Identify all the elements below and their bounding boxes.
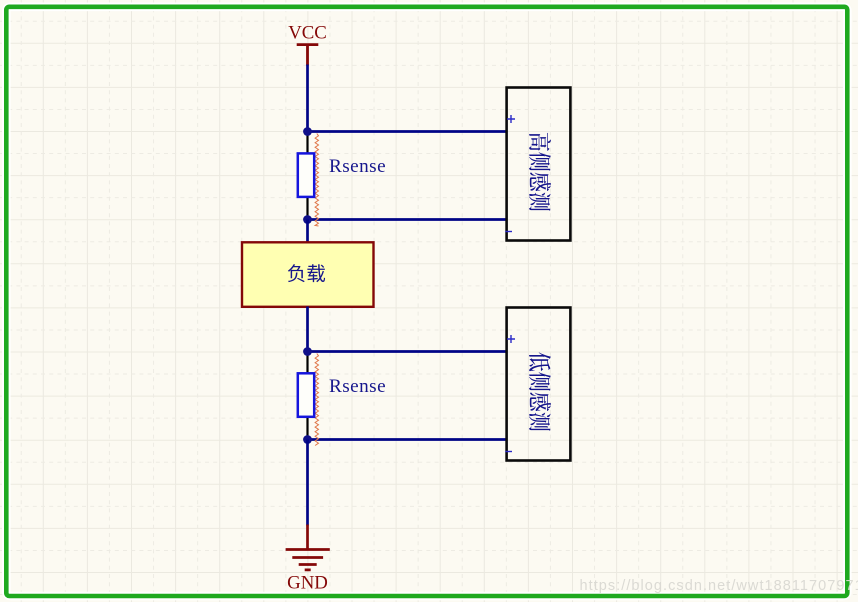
wire node C to low-side box + [308,350,507,353]
wire load to node C [306,307,309,352]
wire node B to load [306,220,309,244]
wire node A to high-side box + [308,130,507,133]
svg-text:https://blog.csdn.net/wwt18811: https://blog.csdn.net/wwt18811707971 [580,578,858,594]
svg-text:VCC: VCC [288,23,327,44]
load box 负载 [242,242,374,306]
power port VCC [288,23,327,66]
power port GND [286,525,330,594]
junction node A [303,127,312,136]
sheet symbol U1 high-side sense box [505,88,570,241]
junction node B [303,215,312,224]
resistor R2 Rsense (low side) [298,352,319,446]
resistor R1 Rsense (high side) [298,132,319,227]
svg-text:Rsense: Rsense [329,156,386,177]
sheet symbol U2 low-side sense box [505,308,570,461]
junction node C [303,347,312,356]
wire node B to high-side box - [308,218,507,221]
svg-text:Rsense: Rsense [329,376,386,397]
svg-text:GND: GND [287,573,328,594]
wire node D to low-side box - [308,438,507,441]
wire node D to GND [306,440,309,526]
wire VCC to node A [306,65,309,132]
junction node D [303,435,312,444]
